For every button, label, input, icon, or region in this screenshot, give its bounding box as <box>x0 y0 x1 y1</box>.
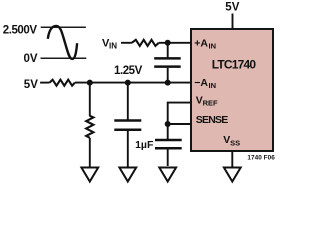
svg-text:LTC1740: LTC1740 <box>212 58 257 72</box>
svg-text:5V: 5V <box>225 1 239 13</box>
svg-text:2.500V: 2.500V <box>3 24 38 36</box>
svg-text:1µF: 1µF <box>135 139 154 151</box>
svg-text:1740 F06: 1740 F06 <box>247 154 275 161</box>
svg-text:0V: 0V <box>24 53 38 65</box>
svg-text:IN: IN <box>109 42 117 51</box>
svg-text:−A: −A <box>194 77 208 89</box>
svg-text:IN: IN <box>209 41 217 50</box>
svg-text:+A: +A <box>194 37 208 49</box>
svg-text:REF: REF <box>203 99 218 108</box>
svg-text:IN: IN <box>209 81 217 90</box>
svg-text:SS: SS <box>230 138 240 147</box>
svg-text:1.25V: 1.25V <box>114 65 143 77</box>
svg-text:5V: 5V <box>24 79 38 91</box>
svg-text:SENSE: SENSE <box>196 114 229 126</box>
